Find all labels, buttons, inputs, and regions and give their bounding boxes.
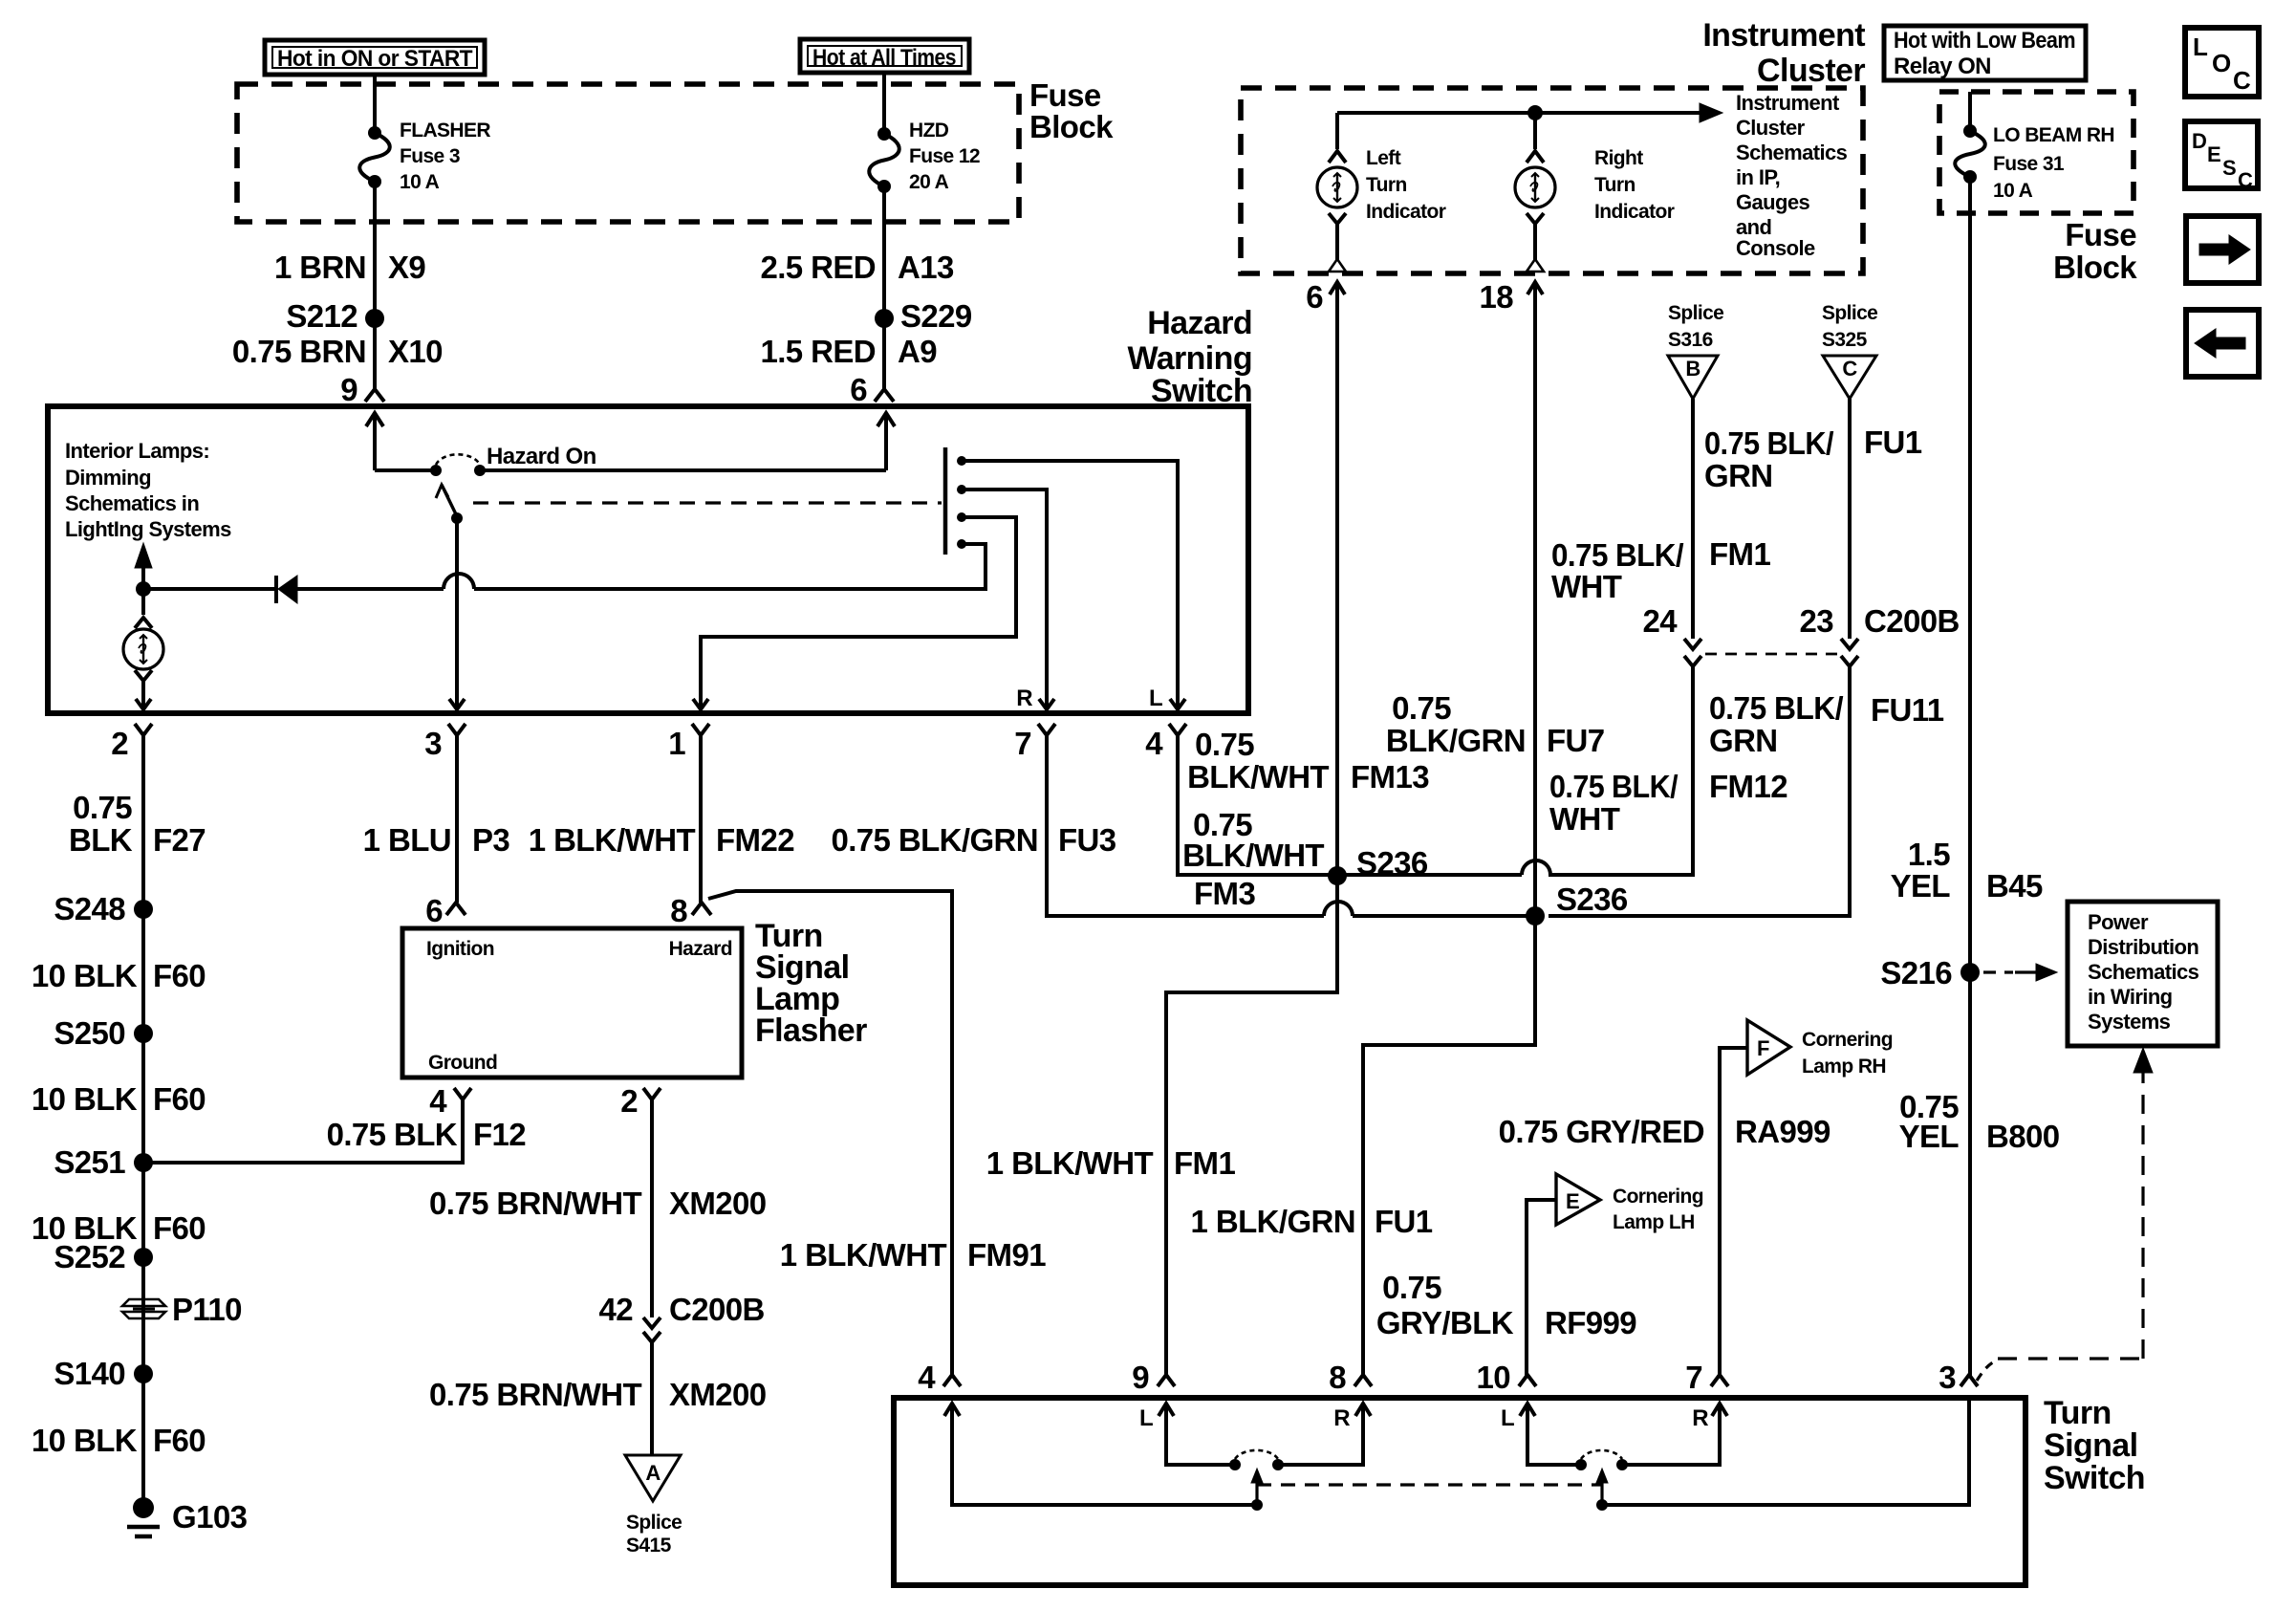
svg-text:F27: F27 — [153, 822, 206, 858]
svg-text:FM13: FM13 — [1351, 759, 1429, 795]
svg-text:Ground: Ground — [428, 1052, 497, 1074]
svg-text:10 A: 10 A — [400, 171, 440, 193]
svg-text:Turn: Turn — [1594, 174, 1635, 196]
pin 2 of Hazard Warning Switch — [135, 724, 152, 735]
junction dot on cluster feed — [1527, 105, 1543, 120]
svg-text:0.75: 0.75 — [1392, 690, 1451, 726]
svg-text:X10: X10 — [388, 334, 443, 369]
svg-text:Hot in ON or START: Hot in ON or START — [277, 46, 473, 72]
diode (to interior lamps) — [274, 576, 278, 603]
illumination lamp (hazard switch) — [123, 629, 163, 669]
cornering lamp RH connector F — [1747, 1020, 1790, 1075]
svg-text:Signal: Signal — [2044, 1427, 2137, 1464]
svg-text:S250: S250 — [54, 1015, 125, 1051]
contact dot 1 (to pin 4 L) — [957, 456, 966, 466]
wire: Fuse 31 to turn signal switch pin 3 (1.5 YEL B45 / 0.75 YEL B800) — [1968, 177, 1972, 1377]
svg-text:Right: Right — [1594, 147, 1643, 169]
contact dot 2 (to pin 7 R) — [957, 485, 966, 494]
svg-text:Schematics: Schematics — [1736, 141, 1848, 164]
dashed connector line C200B — [1705, 653, 1839, 656]
svg-text:7: 7 — [1014, 726, 1031, 761]
svg-text:Indicator: Indicator — [1594, 201, 1675, 223]
splice S252 — [134, 1248, 153, 1267]
svg-text:Gauges: Gauges — [1736, 190, 1809, 214]
wire: turn signal pin 10 to cornering lamp LH (0.75 GRY/BLK RF999) — [1527, 1200, 1556, 1377]
svg-text:Splice: Splice — [1822, 302, 1877, 324]
legend box: arrow left — [2186, 310, 2259, 377]
svg-text:C: C — [2238, 168, 2253, 192]
svg-text:Console: Console — [1736, 236, 1815, 260]
svg-text:Dimming: Dimming — [65, 466, 151, 490]
svg-text:FU1: FU1 — [1864, 425, 1922, 460]
svg-text:BLK/WHT: BLK/WHT — [1187, 759, 1329, 795]
svg-text:Block: Block — [2053, 250, 2137, 285]
arrow: to interior lamps dimming schematics — [141, 566, 145, 589]
wire: branch down to illumination lamp — [141, 589, 145, 615]
pin 4 of Hazard Warning Switch — [1169, 724, 1186, 735]
wire: hazard pin 1 to flasher pin 8 (1 BLK/WHT FM22) — [699, 745, 703, 903]
svg-text:1 BLK/WHT: 1 BLK/WHT — [529, 822, 696, 858]
svg-text:Instrument: Instrument — [1736, 91, 1840, 115]
wire: hazard pin 7 to S236 (0.75 BLK/GRN FU3) — [1047, 745, 1324, 916]
svg-text:L: L — [1501, 1405, 1514, 1431]
legend box DESC — [2185, 121, 2258, 188]
svg-text:C: C — [2233, 66, 2251, 95]
dashed mechanical link: hazard knob to contact bar — [473, 501, 942, 504]
svg-text:R: R — [1692, 1405, 1708, 1431]
hop: FU3/S236 line over FM1 wire — [1324, 902, 1353, 916]
dashed wire: turn signal pin 3 to Power Distribution — [1977, 1360, 1998, 1381]
svg-text:Fuse 12: Fuse 12 — [909, 145, 980, 167]
svg-text:FU3: FU3 — [1058, 822, 1116, 858]
header box: Hot with Low Beam Relay ON — [1884, 26, 2086, 80]
svg-text:LO BEAM RH: LO BEAM RH — [1993, 124, 2114, 146]
fuse block (top) dashed outline — [237, 84, 1019, 222]
svg-text:Hot at All Times: Hot at All Times — [812, 45, 956, 71]
svg-text:0.75 BLK/: 0.75 BLK/ — [1704, 425, 1833, 461]
svg-text:YEL: YEL — [1899, 1119, 1960, 1154]
svg-text:4: 4 — [429, 1083, 447, 1119]
wire: Hazard On contact to pin 6 lead — [480, 468, 886, 472]
wire: into LO BEAM fuse — [1968, 92, 1972, 131]
svg-text:2.5 RED: 2.5 RED — [760, 250, 876, 285]
svg-text:HZD: HZD — [909, 120, 949, 142]
right switch contact dot (L) — [1575, 1459, 1587, 1470]
svg-text:in Wiring: in Wiring — [2088, 985, 2173, 1009]
svg-text:S216: S216 — [1880, 955, 1952, 991]
svg-text:Flasher: Flasher — [755, 1012, 867, 1049]
svg-text:Hot with Low Beam: Hot with Low Beam — [1894, 28, 2075, 54]
svg-text:X9: X9 — [388, 250, 425, 285]
svg-text:3: 3 — [424, 726, 442, 761]
splice S229 — [875, 309, 894, 328]
svg-text:0.75 BRN/WHT: 0.75 BRN/WHT — [429, 1377, 641, 1412]
fuse block (right) dashed outline — [1939, 92, 2134, 213]
svg-text:Warning: Warning — [1127, 340, 1252, 377]
left turn switch lever — [1255, 1474, 1258, 1503]
junction dot: interior lamps branch — [136, 581, 151, 597]
wire: flasher pin 8 to turn signal switch pin 4 (1 BLK/WHT FM91) — [708, 891, 952, 1377]
dashed arc: right turn switch throw — [1581, 1450, 1622, 1459]
wire: connector 24 to S236 junction (0.75 BLK/WHT FM12) — [1549, 666, 1693, 875]
svg-text:S212: S212 — [286, 298, 357, 334]
svg-text:8: 8 — [670, 893, 687, 928]
svg-text:Fuse 31: Fuse 31 — [1993, 153, 2065, 175]
wire: pin 7 to right switch contact — [1622, 1404, 1720, 1465]
splice S140 — [134, 1364, 153, 1383]
svg-text:Cluster: Cluster — [1736, 116, 1806, 140]
wire: connector to splice A (0.75 BRN/WHT XM200) — [650, 1342, 654, 1455]
svg-text:BLK/GRN: BLK/GRN — [1386, 723, 1526, 758]
svg-text:BLK/WHT: BLK/WHT — [1182, 838, 1324, 873]
svg-text:Block: Block — [1029, 109, 1114, 144]
svg-text:FU1: FU1 — [1375, 1204, 1433, 1239]
dashed mechanical link: turn signal levers — [1257, 1483, 1602, 1486]
splice S236 (lower) — [1526, 906, 1545, 925]
wire: lamp to pin 2 — [141, 681, 145, 709]
svg-text:23: 23 — [1799, 603, 1833, 639]
svg-text:1 BRN: 1 BRN — [274, 250, 366, 285]
pin 1 of Hazard Warning Switch — [692, 724, 709, 735]
wire: pin 10 to right switch contact — [1527, 1404, 1581, 1465]
svg-text:FM3: FM3 — [1194, 876, 1255, 911]
splice S216 — [1960, 963, 1980, 982]
svg-text:FM12: FM12 — [1709, 769, 1787, 804]
svg-text:GRY/BLK: GRY/BLK — [1376, 1305, 1514, 1340]
svg-text:0.75 BLK/: 0.75 BLK/ — [1549, 769, 1678, 804]
splice S250 — [134, 1024, 153, 1043]
svg-text:Cornering: Cornering — [1802, 1029, 1893, 1051]
splice S212 — [365, 309, 384, 328]
contact dot 3 (to pin 1) — [957, 512, 966, 522]
wire: pin 8 to left switch contact — [1278, 1404, 1363, 1465]
svg-text:WHT: WHT — [1551, 569, 1622, 604]
svg-text:GRN: GRN — [1709, 723, 1778, 758]
dashed arc: hazard switch throw — [436, 454, 480, 465]
svg-text:P3: P3 — [472, 822, 509, 858]
svg-text:Hazard: Hazard — [1147, 305, 1252, 341]
svg-text:1 BLK/GRN: 1 BLK/GRN — [1191, 1204, 1355, 1239]
wire: cluster pin 18 to S236 (0.75 BLK/GRN FU7) — [1533, 282, 1537, 916]
svg-text:Turn: Turn — [2044, 1395, 2112, 1431]
hazard switch contact dot (Hazard On) — [474, 465, 486, 476]
svg-text:20 A: 20 A — [909, 171, 949, 193]
pin 7 of Hazard Warning Switch — [1038, 724, 1055, 735]
pin 9 of Turn Signal Switch (L) — [1158, 1375, 1175, 1386]
wire: hazard pin 4 to S236 (0.75 BLK/WHT FM3) — [1178, 745, 1337, 875]
svg-text:Hazard: Hazard — [669, 938, 732, 960]
ground G103 — [133, 1497, 154, 1518]
svg-text:FM1: FM1 — [1709, 536, 1770, 572]
svg-text:2: 2 — [111, 726, 128, 761]
pin 3 of Turn Signal Switch — [1960, 1375, 1978, 1386]
wire: S236 to turn signal switch pin 8 (1 BLK/GRN FU1) — [1363, 916, 1535, 1377]
Hazard Warning Switch box — [48, 406, 1248, 713]
svg-text:L: L — [1139, 1405, 1153, 1431]
svg-text:S415: S415 — [626, 1535, 672, 1557]
svg-text:S251: S251 — [54, 1144, 125, 1180]
svg-text:F12: F12 — [473, 1117, 526, 1152]
svg-text:G103: G103 — [172, 1499, 248, 1535]
svg-text:Schematics: Schematics — [2088, 960, 2199, 984]
svg-text:10 BLK: 10 BLK — [32, 958, 138, 993]
svg-text:LightIng Systems: LightIng Systems — [65, 517, 231, 541]
wire: contact 3 to pin 1 — [701, 517, 1016, 709]
svg-text:F60: F60 — [153, 1423, 206, 1458]
svg-text:0.75: 0.75 — [73, 790, 132, 825]
svg-text:0.75 GRY/RED: 0.75 GRY/RED — [1499, 1114, 1704, 1149]
svg-text:RF999: RF999 — [1545, 1305, 1636, 1340]
svg-text:1.5: 1.5 — [1908, 837, 1950, 872]
svg-text:3: 3 — [1939, 1360, 1956, 1395]
cornering lamp LH connector E — [1556, 1174, 1600, 1225]
wire: pin 2 to G103 (0.75 BLK F27 / 10 BLK F60) — [141, 745, 145, 1508]
wire: splice B down (0.75 BLK/WHT FM1) — [1691, 399, 1695, 639]
svg-text:42: 42 — [598, 1292, 633, 1327]
svg-text:Splice: Splice — [626, 1512, 682, 1534]
wire: flasher pin 2 down (0.75 BRN/WHT XM200) — [650, 1099, 654, 1317]
svg-text:WHT: WHT — [1549, 801, 1620, 837]
svg-text:B45: B45 — [1986, 868, 2043, 903]
svg-text:Power: Power — [2088, 910, 2149, 934]
svg-text:FLASHER: FLASHER — [400, 120, 490, 142]
svg-text:6: 6 — [425, 893, 443, 928]
svg-text:in IP,: in IP, — [1736, 165, 1780, 189]
svg-text:F: F — [1757, 1036, 1769, 1060]
svg-text:Lamp RH: Lamp RH — [1802, 1056, 1886, 1078]
svg-text:0.75 BLK/GRN: 0.75 BLK/GRN — [831, 822, 1038, 858]
svg-text:Distribution: Distribution — [2088, 935, 2199, 959]
svg-text:GRN: GRN — [1704, 458, 1773, 493]
svg-text:1.5 RED: 1.5 RED — [760, 334, 876, 369]
svg-text:FU11: FU11 — [1871, 692, 1944, 728]
wire: pin 4 to left lever pivot — [952, 1404, 1257, 1505]
legend box LOC — [2185, 28, 2259, 97]
svg-text:6: 6 — [1306, 279, 1323, 315]
header box: Hot at All Times — [800, 39, 969, 73]
pin 4 of Turn Signal Switch — [943, 1375, 961, 1386]
pin 4 of flasher — [454, 1088, 471, 1099]
svg-text:XM200: XM200 — [669, 1377, 767, 1412]
grommet P110 — [122, 1299, 165, 1306]
svg-text:Left: Left — [1366, 147, 1401, 169]
svg-text:C200B: C200B — [669, 1292, 765, 1327]
svg-text:10 A: 10 A — [1993, 180, 2033, 202]
Turn Signal Switch box — [894, 1398, 2025, 1585]
fuse F31 LO BEAM RH Fuse 31 10 A — [1963, 124, 1977, 138]
svg-text:FM22: FM22 — [716, 822, 794, 858]
svg-text:10 BLK: 10 BLK — [32, 1081, 138, 1117]
svg-text:Turn: Turn — [1366, 174, 1407, 196]
pin 3 of Hazard Warning Switch — [448, 724, 466, 735]
wire: dimming feed left segment with diode — [297, 587, 444, 591]
svg-text:F60: F60 — [153, 958, 206, 993]
svg-text:O: O — [2212, 49, 2231, 77]
wire: pin 9 to left switch contact — [1166, 1404, 1235, 1465]
svg-text:E: E — [1566, 1189, 1579, 1213]
svg-text:1 BLK/WHT: 1 BLK/WHT — [780, 1237, 947, 1273]
left turn indicator lamp — [1335, 113, 1339, 149]
svg-text:0.75 BLK/: 0.75 BLK/ — [1551, 537, 1683, 573]
svg-text:A: A — [645, 1461, 661, 1485]
svg-text:Instrument: Instrument — [1702, 17, 1865, 54]
dashed arrow: S216 to Power Distribution — [1983, 970, 2013, 973]
svg-text:6: 6 — [850, 372, 867, 407]
right lever pivot dot — [1596, 1499, 1608, 1511]
svg-text:7: 7 — [1685, 1360, 1702, 1395]
wire: contact 2 to pin 7 — [962, 490, 1047, 709]
svg-text:Indicator: Indicator — [1366, 201, 1446, 223]
pin 10 of Turn Signal Switch (L) — [1519, 1375, 1536, 1386]
svg-text:4: 4 — [1145, 726, 1163, 761]
svg-text:C: C — [1842, 357, 1857, 381]
svg-text:F60: F60 — [153, 1081, 206, 1117]
wire: cluster internal feed — [1337, 111, 1705, 115]
legend box: arrow right — [2186, 216, 2259, 283]
left switch contact dot (R) — [1272, 1459, 1284, 1470]
svg-text:L: L — [1149, 686, 1162, 711]
svg-text:Relay ON: Relay ON — [1894, 54, 1991, 79]
contact dot 4 (to interior lamps feed) — [957, 539, 966, 549]
svg-text:A13: A13 — [898, 250, 954, 285]
wire: Fuse 12 to Hazard Warning Switch pin 6 (2.5 RED A13 / 1.5 RED A9) — [882, 186, 886, 392]
svg-text:Ignition: Ignition — [426, 938, 494, 960]
splice A (S415) — [625, 1455, 681, 1501]
hazard switch contact bar — [943, 447, 948, 555]
pin 8 of Turn Signal Switch (R) — [1354, 1375, 1372, 1386]
header box: Hot in ON or START — [265, 40, 485, 75]
wire: cluster pin 6 to S236 (0.75 BLK/WHT FM13) — [1335, 282, 1339, 876]
pin 2 of flasher — [643, 1088, 661, 1099]
arrow to Instrument Cluster Schematics — [1700, 103, 1722, 122]
svg-text:S140: S140 — [54, 1356, 125, 1391]
svg-text:8: 8 — [1329, 1360, 1346, 1395]
svg-text:18: 18 — [1479, 279, 1513, 315]
svg-text:2: 2 — [620, 1083, 638, 1119]
svg-text:B: B — [1685, 357, 1700, 381]
left switch contact dot (L) — [1229, 1459, 1241, 1470]
wire: Hot in ON or START to Fuse 3 — [373, 75, 377, 133]
wire: Fuse 3 to Hazard Warning Switch pin 9 (1 BRN X9 / 0.75 BRN X10) — [373, 182, 377, 392]
svg-text:Hazard On: Hazard On — [487, 444, 596, 469]
svg-text:A9: A9 — [898, 334, 937, 369]
svg-text:Cornering: Cornering — [1613, 1186, 1703, 1208]
svg-text:0.75 BRN/WHT: 0.75 BRN/WHT — [429, 1186, 641, 1221]
svg-text:RA999: RA999 — [1735, 1114, 1830, 1149]
dashed arc: left turn switch throw — [1235, 1450, 1278, 1459]
svg-text:FM91: FM91 — [967, 1237, 1046, 1273]
Turn Signal Lamp Flasher box — [402, 928, 742, 1078]
svg-text:0.75: 0.75 — [1195, 727, 1254, 762]
hazard switch lever (movable contact) — [442, 485, 457, 516]
svg-text:FM1: FM1 — [1174, 1145, 1235, 1181]
svg-text:XM200: XM200 — [669, 1186, 767, 1221]
svg-text:1 BLU: 1 BLU — [363, 822, 451, 858]
right turn switch lever — [1600, 1474, 1603, 1503]
svg-text:BLK: BLK — [69, 822, 133, 858]
hop: dimming feed over pin 3 wire — [444, 574, 474, 589]
svg-text:C200B: C200B — [1864, 603, 1960, 639]
wire: turn signal pin 7 to cornering lamp RH (0.75 GRY/RED RA999) — [1720, 1048, 1747, 1377]
svg-text:S248: S248 — [54, 891, 125, 926]
hazard switch pivot dot — [451, 512, 463, 524]
svg-text:Fuse 3: Fuse 3 — [400, 145, 460, 167]
svg-text:Fuse: Fuse — [2065, 217, 2136, 252]
svg-text:F60: F60 — [153, 1210, 206, 1246]
svg-text:S252: S252 — [54, 1239, 125, 1274]
fuse F3 FLASHER Fuse 3 10 A — [368, 126, 381, 140]
svg-text:9: 9 — [1132, 1360, 1149, 1395]
svg-text:FU7: FU7 — [1547, 723, 1605, 758]
svg-text:Switch: Switch — [2044, 1460, 2145, 1496]
svg-text:R: R — [1333, 1405, 1350, 1431]
svg-text:Cluster: Cluster — [1757, 53, 1865, 89]
right switch contact dot (R) — [1616, 1459, 1628, 1470]
svg-text:B800: B800 — [1986, 1119, 2060, 1154]
svg-text:0.75 BRN: 0.75 BRN — [232, 334, 366, 369]
svg-text:10: 10 — [1476, 1360, 1510, 1395]
svg-text:YEL: YEL — [1891, 868, 1951, 903]
hop: FM1 link over FU7 wire — [1337, 873, 1522, 877]
right turn indicator lamp — [1533, 113, 1537, 149]
svg-text:0.75 BLK: 0.75 BLK — [327, 1117, 458, 1152]
svg-text:S229: S229 — [900, 298, 972, 334]
splice S236 (upper) — [1328, 866, 1347, 885]
svg-text:S: S — [2222, 156, 2236, 180]
svg-text:S236: S236 — [1556, 882, 1628, 917]
wire: pin 3 to right lever pivot — [1602, 1398, 1969, 1505]
svg-text:S316: S316 — [1668, 329, 1713, 351]
Instrument Cluster dashed box — [1241, 88, 1863, 273]
svg-text:D: D — [2192, 129, 2206, 153]
wire: connector 23 to S236 junction (0.75 BLK/GRN FU11) — [1549, 666, 1850, 916]
hazard switch contact dot (from pin 9) — [430, 465, 442, 476]
pin 7 of Turn Signal Switch (R) — [1711, 1375, 1728, 1386]
svg-text:10 BLK: 10 BLK — [32, 1423, 138, 1458]
svg-text:4: 4 — [918, 1360, 936, 1395]
svg-text:Splice: Splice — [1668, 302, 1723, 324]
wire: hazard pin 3 to flasher pin 6 (1 BLU P3) — [455, 745, 459, 903]
svg-text:1 BLK/WHT: 1 BLK/WHT — [986, 1145, 1154, 1181]
wire: splice C down (0.75 BLK/GRN FU1) — [1848, 399, 1852, 639]
wire: pivot to pin 3 — [455, 518, 459, 709]
svg-text:9: 9 — [340, 372, 357, 407]
Power Distribution Schematics box — [2068, 902, 2218, 1046]
svg-text:24: 24 — [1642, 603, 1678, 639]
svg-text:E: E — [2207, 142, 2220, 166]
left lever pivot dot — [1251, 1499, 1263, 1511]
svg-text:R: R — [1016, 686, 1032, 711]
wire: pin 9 lead inside switch — [366, 413, 383, 426]
wire: contact 4 to dimming feed — [474, 544, 986, 589]
svg-text:0.75: 0.75 — [1382, 1270, 1441, 1305]
svg-text:1: 1 — [668, 726, 685, 761]
wire: flasher pin 4 to S251 (0.75 BLK F12) — [143, 1099, 463, 1163]
svg-text:Systems: Systems — [2088, 1010, 2171, 1034]
wire: contact 1 to pin 4 — [962, 461, 1178, 709]
svg-text:Interior Lamps:: Interior Lamps: — [65, 439, 209, 463]
wire: S236 to turn signal switch pin 9 (1 BLK/WHT FM1) — [1166, 876, 1337, 1377]
fuse F12 HZD Fuse 12 20 A — [877, 127, 891, 141]
svg-text:Fuse: Fuse — [1029, 77, 1101, 113]
wire: Hot at All Times to Fuse 12 — [882, 73, 886, 134]
svg-text:L: L — [2193, 33, 2208, 61]
splice S248 — [134, 900, 153, 919]
svg-text:S325: S325 — [1822, 329, 1868, 351]
svg-text:Schematics in: Schematics in — [65, 491, 199, 515]
svg-text:0.75 BLK/: 0.75 BLK/ — [1709, 690, 1843, 726]
svg-text:P110: P110 — [172, 1292, 242, 1327]
